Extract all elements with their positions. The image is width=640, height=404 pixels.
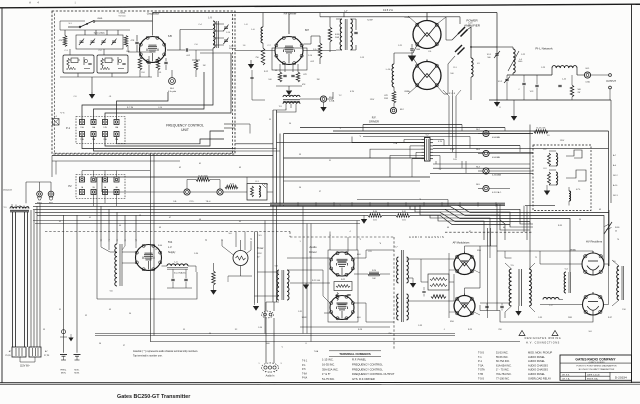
- trimmer capacitor C14: [223, 25, 228, 44]
- svg-text:25W: 25W: [384, 98, 388, 100]
- label M1: [585, 68, 590, 84]
- label V1 6SJ7: [168, 35, 173, 38]
- svg-text:FREQUENCY CONTROL: FREQUENCY CONTROL: [166, 124, 204, 128]
- terminal strip P1 enclosure: [76, 117, 125, 144]
- svg-text:833A: 833A: [404, 90, 410, 93]
- svg-text:Spread Adj: Spread Adj: [94, 32, 105, 35]
- label T5: [510, 265, 514, 267]
- svg-text:1: 1: [259, 363, 260, 365]
- label 833 upper: [404, 16, 410, 19]
- wire PA grid: [394, 45, 417, 64]
- wire step nest 5: [438, 215, 484, 240]
- svg-text:FREQ.: FREQ.: [60, 370, 67, 372]
- ground timer pair: [253, 303, 259, 311]
- wire fcu drop verticals: [151, 154, 155, 342]
- svg-text:35A-52A INC.: 35A-52A INC.: [322, 367, 339, 371]
- svg-text:Oscillator: Oscillator: [147, 12, 160, 16]
- label screen res: [313, 49, 317, 51]
- svg-text:6.8K: 6.8K: [335, 34, 340, 36]
- tube V11 hv rect upper: [582, 251, 604, 275]
- meter M4: [478, 150, 533, 156]
- label 5V4: [168, 241, 176, 254]
- svg-text:AF Modulators: AF Modulators: [453, 241, 471, 245]
- svg-text:8 5 5 8: 8 5 5 8: [449, 93, 456, 95]
- wire monitor drops: [64, 215, 78, 353]
- wire hv bottom loop: [480, 300, 593, 323]
- wire bus y152: [430, 151, 533, 153]
- caption: [117, 394, 191, 400]
- tube label band upper: [337, 259, 348, 261]
- wire bus y199: [357, 200, 448, 207]
- svg-text:GTS. R.F. DRIVER: GTS. R.F. DRIVER: [352, 377, 375, 381]
- svg-text:P-6A: P-6A: [302, 377, 308, 380]
- table terminal numbers right: [478, 351, 552, 381]
- capacitor C13 tank: [530, 75, 539, 100]
- crystal oven Y2 detail: [101, 57, 126, 67]
- terminal P1-4: [114, 120, 119, 125]
- label osc values: [60, 113, 65, 115]
- label 833 lower: [404, 90, 410, 93]
- tube V9 modulator upper: [454, 252, 475, 275]
- wire bus y168: [433, 167, 530, 169]
- wire fcu exit right: [224, 124, 235, 131]
- meter M2b: [478, 130, 530, 136]
- svg-text:AUDIO CHASSIS: AUDIO CHASSIS: [528, 368, 548, 372]
- label T6: [109, 291, 113, 293]
- wire step nest 6: [500, 204, 505, 240]
- label 810 lower: [450, 321, 454, 323]
- wire L7 connect: [304, 17, 357, 51]
- svg-text:807: 807: [305, 29, 310, 32]
- connector AC input 2: [29, 347, 41, 357]
- connector AC input 1: [12, 347, 26, 357]
- label C11: [416, 46, 420, 51]
- resistor R19: [534, 130, 609, 134]
- wire bus y161: [52, 160, 180, 162]
- label L4: [519, 59, 523, 61]
- svg-text:R-24: R-24: [372, 270, 376, 272]
- label C20: [468, 23, 473, 28]
- capacitor C5: [135, 35, 138, 52]
- svg-text:115V: 115V: [560, 140, 565, 142]
- label VC1: [487, 54, 491, 59]
- svg-text:FREQUENCY CONTROL OUTPUT: FREQUENCY CONTROL OUTPUT: [352, 372, 395, 376]
- inductor L5 choke: [162, 264, 197, 269]
- svg-text:MOD. MON. PICKUP: MOD. MON. PICKUP: [528, 351, 552, 355]
- wire L9 taps: [213, 24, 224, 45]
- svg-text:P5,P6: P5,P6: [5, 355, 10, 357]
- ground audio mid: [303, 283, 309, 289]
- resistor R1: [59, 36, 67, 47]
- svg-text:P2: P2: [68, 184, 72, 188]
- marker hv triangle 2: [552, 331, 558, 336]
- label audio driver: [309, 245, 317, 254]
- resistor R16: [187, 178, 220, 189]
- svg-text:4.7%: 4.7%: [576, 189, 581, 191]
- wire power bundle 2: [33, 206, 604, 266]
- relay K2 coil: [544, 149, 558, 166]
- wire bottom band 2: [95, 335, 455, 337]
- svg-text:3: 3: [274, 372, 275, 374]
- tube V5 PA lower: [413, 60, 441, 90]
- wire hv tube cap line: [592, 238, 594, 245]
- trimmer capacitor C1: [79, 39, 84, 45]
- crystal oven Y2: [97, 55, 128, 73]
- terminal P1-3: [103, 120, 108, 125]
- wire hv filter: [480, 303, 510, 311]
- svg-text:P7,P8: P7,P8: [44, 355, 49, 357]
- label af modulators: [453, 241, 471, 245]
- label 13.5 V A: [383, 8, 393, 12]
- svg-text:R-16 2500: R-16 2500: [198, 176, 208, 178]
- wire tank out: [507, 73, 552, 75]
- ground tank 1: [494, 100, 500, 107]
- wire bus y127: [300, 128, 505, 132]
- svg-text:Asterisk ( * ) represents audi: Asterisk ( * ) represents audio chassis …: [133, 350, 198, 353]
- wire mod to hv: [497, 246, 540, 251]
- svg-text:Supply: Supply: [168, 251, 176, 254]
- label VC2: [498, 81, 502, 83]
- label L5 rating: [174, 272, 187, 275]
- label output: [606, 80, 616, 83]
- node pin numbers LV: [100, 239, 137, 242]
- terminal P2-5: [80, 190, 85, 195]
- tube V12 hv rect lower: [583, 292, 604, 315]
- inductor interlock coil: [569, 187, 571, 206]
- wire fcu mesh 4: [117, 92, 169, 120]
- wire 13.5V bus: [153, 12, 498, 14]
- wire left feeders: [31, 203, 40, 347]
- wire bus y155: [52, 155, 273, 157]
- svg-text:16-35 INC.: 16-35 INC.: [322, 362, 335, 366]
- grid box 807: [272, 48, 307, 70]
- svg-text:L-10: L-10: [386, 69, 391, 71]
- wire step nest 1: [410, 206, 533, 224]
- svg-text:R-22: R-22: [341, 279, 345, 281]
- wire modulator fil: [449, 270, 480, 315]
- ground M6 meter: [320, 102, 326, 112]
- resistor R26: [431, 295, 446, 299]
- switch S1: [79, 21, 95, 28]
- audio chassis outline: [300, 250, 390, 327]
- svg-text:10.5: 10.5: [402, 219, 406, 221]
- terminal P2-1: [80, 177, 85, 182]
- label 611: [368, 251, 372, 253]
- wire drop x533: [532, 128, 534, 134]
- svg-text:Gates BC250-GT Transmitter: Gates BC250-GT Transmitter: [117, 394, 191, 400]
- label audio in: [259, 363, 282, 378]
- inductor L4 tank: [497, 47, 519, 73]
- inductor L3 plate choke: [471, 58, 473, 77]
- wire output ground: [609, 89, 611, 100]
- ground T7: [407, 278, 417, 288]
- svg-text:AUDIO CHASSIS: AUDIO CHASSIS: [409, 235, 445, 239]
- resistor R4: [156, 57, 160, 77]
- trimmer bank box: [76, 35, 123, 49]
- wire band riser right: [389, 274, 391, 327]
- wire mod riser pair: [488, 228, 491, 246]
- wire bus y173: [430, 172, 533, 174]
- svg-text:13.5 V A: 13.5 V A: [383, 8, 393, 12]
- label L7: [345, 9, 348, 13]
- wire L3 bottom: [470, 77, 472, 100]
- wire grid bus: [60, 77, 152, 92]
- wire step nest 2: [415, 206, 533, 227]
- label K1: [255, 181, 259, 183]
- tube V1 oscillator: [139, 36, 165, 62]
- svg-text:6.3-.075A-60C: 6.3-.075A-60C: [174, 272, 187, 275]
- svg-text:T-6A: T-6A: [302, 372, 307, 375]
- svg-text:2: 2: [265, 372, 266, 374]
- title block frame: [560, 355, 632, 380]
- wire left bus exit: [235, 124, 284, 158]
- inductor L2 hv choke: [543, 298, 559, 300]
- label J2: [425, 135, 429, 137]
- svg-text:1/4: 1/4: [275, 70, 278, 72]
- label R10: [335, 34, 340, 39]
- svg-text:MOD: MOD: [49, 203, 54, 205]
- terminal strip P2 enclosure: [76, 175, 125, 199]
- terminal P2-6: [91, 190, 96, 195]
- resistor R31: [396, 211, 410, 221]
- label audio in terminals column: [302, 361, 308, 380]
- label AC in: [5, 350, 49, 357]
- capacitor monitor pickup 1: [60, 330, 67, 337]
- wire bus y164: [433, 163, 530, 165]
- svg-text:MON.: MON.: [74, 373, 80, 375]
- svg-text:P.P.L.: P.P.L.: [190, 201, 195, 203]
- label 807: [305, 29, 310, 32]
- svg-text:R.F. PANEL: R.F. PANEL: [352, 358, 367, 362]
- wire pa to tank: [471, 13, 497, 101]
- svg-text:T.B.-6: T.B.-6: [206, 201, 211, 203]
- wire pi-l left edge: [488, 47, 490, 100]
- wire driver plates: [354, 250, 394, 322]
- ground hv: [515, 306, 521, 316]
- label L2: [550, 305, 554, 307]
- wire power bundle 5: [37, 215, 510, 224]
- ground tank 2: [511, 100, 517, 121]
- frequency control unit dashed enclosure: [52, 11, 235, 154]
- ground lv bleeder: [210, 285, 216, 295]
- transformer T7: [396, 250, 408, 322]
- svg-text:FREQUENCY CONTROL: FREQUENCY CONTROL: [352, 367, 383, 371]
- wire fcu mesh 6: [94, 137, 236, 152]
- label 810 upper: [477, 250, 481, 252]
- wire second top bus b: [320, 13, 358, 17]
- wire audio in risers: [266, 302, 279, 363]
- svg-text:DESIGNATES WIRING: DESIGNATES WIRING: [525, 337, 562, 340]
- svg-text:VC3: VC3: [530, 91, 534, 93]
- wire bus y145: [433, 146, 520, 153]
- label C14: [229, 46, 237, 51]
- wire pa fil lines: [408, 16, 446, 94]
- label L6: [251, 29, 255, 31]
- svg-text:R-7 1M: R-7 1M: [127, 107, 134, 109]
- svg-text:1304-1LB: 1304-1LB: [3, 190, 12, 192]
- svg-text:VC-2: VC-2: [498, 81, 502, 83]
- label 6L6 upper: [357, 254, 361, 256]
- wire bus y181: [284, 180, 421, 182]
- svg-text:1-15 INC.: 1-15 INC.: [322, 358, 334, 362]
- border frame bottom: [0, 382, 640, 384]
- section divider dashed step: [290, 232, 394, 238]
- svg-text:T-55: T-55: [478, 372, 484, 376]
- wire hv rect caps: [593, 245, 609, 305]
- fcu inner dashed border: [55, 14, 233, 154]
- tube V6 5V4 rectifier: [135, 244, 161, 270]
- wire timer bottom: [228, 276, 252, 282]
- wire tank ground bus: [489, 99, 611, 101]
- label power amplifier: [464, 19, 481, 28]
- resistor R30: [368, 211, 382, 221]
- resistor R12 static drain: [570, 75, 581, 100]
- trimmer capacitor C2: [90, 39, 95, 45]
- label hv rectifiers: [586, 240, 603, 244]
- svg-text:Audio In: Audio In: [266, 375, 275, 378]
- wire meters left stub: [470, 134, 478, 189]
- terminal P1-2: [91, 120, 96, 125]
- wire plate node: [470, 27, 471, 58]
- wire right vert pair: [610, 100, 612, 203]
- resistor R24: [354, 272, 390, 276]
- wire bus y136: [363, 137, 470, 149]
- label P1: [66, 126, 71, 130]
- transformer T3 filament: [279, 95, 300, 108]
- tube V7 audio driver upper: [330, 252, 355, 277]
- node pin numbers timer: [205, 238, 252, 242]
- label audio in pins: [265, 372, 275, 374]
- terminal P2-7: [103, 190, 108, 195]
- inductor L6: [261, 13, 263, 44]
- label 866A: [570, 249, 576, 252]
- wire bus y177: [97, 176, 430, 178]
- wire audio risers mid: [330, 232, 348, 253]
- tube label band mod upper: [460, 260, 469, 262]
- wire bottom left hook: [94, 299, 96, 334]
- label R22: [341, 279, 345, 281]
- svg-text:S-7A?: S-7A?: [367, 19, 373, 22]
- trimmer capacitor C3: [101, 39, 106, 45]
- label PI-L network: [535, 47, 553, 51]
- svg-text:20W: 20W: [335, 37, 339, 39]
- label L9: [208, 17, 212, 20]
- wire left long drop: [96, 177, 98, 299]
- svg-text:0-500MA: 0-500MA: [492, 136, 500, 139]
- interlock enclosure dashed: [533, 145, 591, 211]
- svg-text:P-1: P-1: [478, 359, 483, 363]
- label mod mon: [74, 370, 80, 375]
- label M3: [476, 167, 501, 177]
- label T9: [612, 261, 616, 263]
- label P2 pins: [81, 186, 118, 189]
- inductor L9: [213, 21, 219, 48]
- svg-text:1W: 1W: [317, 79, 320, 81]
- meter M8: [217, 189, 223, 195]
- wire vertical feed T3: [273, 108, 296, 112]
- capacitor C15: [558, 75, 561, 87]
- variable capacitor VC2: [504, 75, 510, 100]
- plug P7 monitor: [262, 311, 274, 318]
- svg-text:RF Driver: RF Driver: [284, 12, 297, 16]
- wire bottom band 1: [95, 333, 455, 335]
- wire step nest 3: [420, 205, 530, 230]
- wire timer: [222, 240, 251, 276]
- wire rf coupling: [304, 36, 321, 44]
- wire modulator plates: [465, 246, 488, 294]
- wire pa plate join: [444, 17, 455, 94]
- page notch marks: [29, 2, 75, 5]
- wire hv risers: [497, 204, 527, 240]
- svg-text:Timer: Timer: [257, 246, 264, 250]
- wire vertical pair A: [273, 110, 277, 302]
- label jacks: [37, 203, 54, 205]
- wire cathode bus: [276, 86, 302, 90]
- label M6: [168, 88, 176, 93]
- wire step nest 4: [430, 215, 490, 246]
- wire drop x608: [608, 131, 610, 266]
- component value labels: [43, 13, 627, 354]
- ground PA filament: [408, 53, 416, 62]
- wire power band thick: [270, 203, 505, 206]
- svg-text:T-5-5: T-5-5: [478, 376, 485, 380]
- svg-text:833A: 833A: [404, 16, 410, 19]
- section divider dashed right: [445, 231, 533, 233]
- relay K3 coil: [544, 168, 558, 185]
- label right edge rows: [613, 154, 619, 197]
- title block text: [562, 357, 627, 380]
- inductor L10 grid choke: [392, 53, 394, 87]
- svg-text:T-5-5: T-5-5: [478, 351, 485, 355]
- meter M1 output: [577, 72, 609, 78]
- label R36: [615, 227, 620, 233]
- rheostat R36: [604, 214, 612, 234]
- wire grid connect: [235, 50, 275, 52]
- label spread adj: [94, 32, 105, 35]
- svg-text:3: 3: [281, 363, 282, 365]
- wire meter row: [102, 177, 247, 192]
- wire fcu mesh 7: [105, 131, 224, 146]
- capacitor C8 coupling: [180, 48, 213, 60]
- label designates wiring: [525, 337, 562, 344]
- wire T1 legs: [13, 212, 28, 347]
- terminal output lower: [609, 86, 612, 89]
- border frame right: [631, 4, 633, 383]
- connector J1: [53, 116, 60, 125]
- wire T5 bottom: [505, 312, 519, 318]
- svg-text:47K: 47K: [131, 40, 135, 42]
- resistor R22 interstage: [334, 282, 352, 291]
- transformer T4: [564, 272, 570, 293]
- svg-text:51-53 INC.: 51-53 INC.: [496, 351, 509, 355]
- capacitor C10: [354, 32, 357, 45]
- terminal P1-7: [103, 132, 108, 137]
- wire trimmer bus: [60, 30, 130, 36]
- table terminal numbers left: [322, 351, 395, 381]
- pilot lamp M6: [169, 70, 176, 84]
- label R24: [372, 270, 376, 280]
- label M4: [476, 149, 500, 159]
- svg-text:1* - 75 INC.: 1* - 75 INC.: [496, 368, 510, 372]
- terminal P2-8: [114, 190, 119, 195]
- svg-text:6.3V: 6.3V: [438, 141, 443, 143]
- wire drop x497 pa: [496, 100, 498, 128]
- wire power bundle 4: [35, 212, 530, 221]
- svg-text:OVERLOAD RELAY: OVERLOAD RELAY: [528, 376, 551, 380]
- label cathode values: [275, 70, 306, 86]
- capacitor C16 filter: [167, 269, 192, 288]
- wire L9 bottom: [200, 48, 231, 53]
